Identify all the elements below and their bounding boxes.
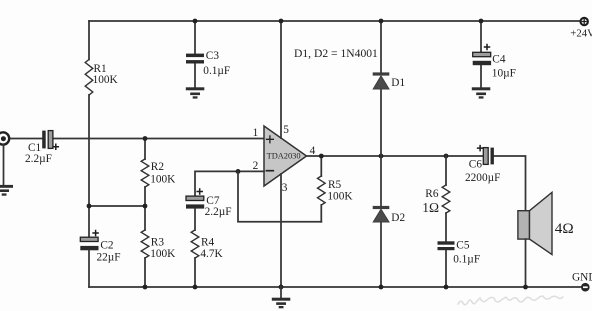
input terminal: [0, 132, 9, 144]
node (bottom rail / C5): [444, 285, 449, 290]
label R3: [151, 236, 165, 248]
value 0.1uF (C5): [453, 253, 480, 265]
node (top rail / D1): [379, 19, 384, 24]
value 100K (R5): [327, 190, 353, 202]
resistor R2: [141, 159, 149, 187]
value 2.2uF (C7): [205, 206, 232, 218]
value 0.1uF (C3): [203, 65, 230, 77]
wire input terminal to ground: [3, 145, 5, 185]
watermark squiggle: [458, 296, 563, 305]
label R6: [425, 188, 439, 200]
value 100K (R3): [150, 248, 176, 260]
label D2: [391, 212, 405, 224]
svg-text:D1: D1: [391, 77, 405, 89]
capacitor C5: [438, 241, 455, 250]
svg-text:2.2µF: 2.2µF: [205, 206, 232, 218]
svg-text:R1: R1: [94, 63, 107, 75]
label C1: [28, 142, 41, 154]
pin 2 label: [253, 160, 259, 172]
polarity + (C6): [478, 146, 483, 151]
capacitor C1: [42, 131, 53, 149]
label R2: [151, 161, 165, 173]
svg-text:10µF: 10µF: [492, 67, 516, 79]
node (top rail / C3): [193, 19, 198, 24]
label +24V: [570, 27, 592, 39]
capacitor C2: [80, 237, 98, 250]
capacitor C6: [483, 148, 494, 165]
svg-text:R3: R3: [151, 236, 165, 248]
wire pin 5 to top rail: [280, 21, 282, 138]
label R1: [94, 63, 107, 75]
svg-text:D1, D2 = 1N4001: D1, D2 = 1N4001: [294, 47, 378, 60]
svg-text:C6: C6: [469, 158, 483, 170]
resistor R5: [318, 176, 326, 205]
pin 5 label: [283, 124, 289, 136]
node (C2 column / link): [87, 204, 92, 209]
value 4.7K (R4): [200, 248, 223, 260]
wire feedback (pin2 node to R5 bottom): [238, 171, 321, 221]
wire left column (R1/C2 branch): [88, 21, 90, 237]
wire input line: [10, 138, 265, 140]
node (bottom rail / speaker): [523, 285, 528, 290]
op-amp U1 TDA2030: [264, 126, 307, 186]
wire R5 column: [320, 156, 322, 222]
svg-text:C4: C4: [492, 54, 506, 66]
label C2: [100, 239, 114, 251]
svg-text:R5: R5: [328, 179, 342, 191]
ground (C3): [186, 87, 205, 98]
capacitor C4: [473, 52, 491, 65]
pin 3 label: [282, 182, 288, 194]
svg-text:0.1µF: 0.1µF: [203, 65, 230, 77]
label D1: [391, 77, 405, 89]
node (bottom rail / D2): [379, 285, 384, 290]
label 4 ohm (speaker): [555, 220, 574, 237]
label R4: [201, 236, 215, 248]
wire R2/R3 column: [144, 139, 146, 288]
label C6: [469, 158, 483, 170]
wire bottom GND rail: [89, 286, 581, 288]
value 100K (R2): [150, 173, 176, 185]
resistor R1: [85, 60, 93, 96]
node (output / D column): [379, 154, 384, 159]
svg-text:4.7K: 4.7K: [200, 248, 223, 260]
node (input line / R2): [143, 136, 148, 141]
value 1 ohm (R6): [422, 200, 439, 215]
wire output line (pin 4): [307, 156, 526, 211]
svg-text:4Ω: 4Ω: [555, 220, 574, 237]
node (pin 2 / feedback): [236, 169, 241, 174]
node (output / R5): [319, 154, 324, 159]
svg-text:C2: C2: [100, 239, 114, 251]
node (top rail / pin 5): [279, 19, 284, 24]
svg-text:2: 2: [253, 160, 259, 172]
terminal GND: [581, 283, 590, 292]
value 100K (R1): [93, 74, 119, 86]
node (output / R6): [444, 154, 449, 159]
svg-text:100K: 100K: [93, 74, 119, 86]
wire D1/D2 column: [380, 21, 382, 287]
svg-text:5: 5: [283, 124, 289, 136]
label C5: [456, 240, 470, 252]
svg-text:2200µF: 2200µF: [465, 172, 500, 184]
label C3: [206, 50, 220, 62]
polarity + (C2): [93, 231, 98, 236]
svg-text:100K: 100K: [150, 173, 176, 185]
wire C2 to bottom rail: [88, 250, 90, 287]
wire speaker to bottom rail: [525, 239, 527, 287]
svg-text:R4: R4: [201, 236, 215, 248]
ground (bottom rail): [272, 287, 291, 308]
wire C7 to R4: [194, 209, 196, 287]
resistor R4: [191, 230, 199, 258]
ground (input): [0, 185, 13, 196]
svg-text:100K: 100K: [150, 248, 176, 260]
svg-text:1: 1: [253, 127, 259, 139]
value 22uF (C2): [97, 251, 121, 263]
svg-text:+24V: +24V: [570, 27, 592, 39]
node (bottom rail / R4): [193, 285, 198, 290]
ground (C4): [472, 87, 491, 98]
pin 1 label: [253, 127, 259, 139]
value 2.2uF (C1): [25, 153, 52, 165]
capacitor C3: [186, 54, 204, 64]
label TDA2030 (U1): [267, 152, 301, 161]
wire top +24V rail: [89, 20, 580, 22]
svg-text:3: 3: [282, 182, 288, 194]
label GND: [572, 272, 592, 284]
wire pin 2 input: [195, 171, 264, 196]
svg-text:22µF: 22µF: [97, 251, 121, 263]
polarity + (C1): [53, 144, 58, 149]
node (top rail / C4): [479, 19, 484, 24]
pin 4 label: [310, 145, 316, 157]
svg-text:C5: C5: [456, 240, 470, 252]
terminal +24V: [581, 18, 588, 25]
svg-text:R2: R2: [151, 161, 165, 173]
node (R2-R3 / link): [143, 204, 148, 209]
svg-text:2.2µF: 2.2µF: [25, 153, 52, 165]
capacitor C7: [186, 196, 204, 208]
svg-text:TDA2030: TDA2030: [267, 152, 301, 161]
value 10uF (C4): [492, 67, 516, 79]
polarity + (C4): [485, 45, 490, 50]
svg-text:1Ω: 1Ω: [422, 200, 439, 215]
svg-text:C3: C3: [206, 50, 220, 62]
wire C4 column: [480, 21, 482, 87]
wire C3 column: [194, 21, 196, 87]
polarity + (C7): [197, 189, 202, 194]
label R5: [328, 179, 342, 191]
wire R6/C5 column: [445, 156, 447, 287]
label D1, D2 = 1N4001: [294, 47, 378, 60]
svg-text:D2: D2: [391, 212, 405, 224]
wire C2-R3 link: [89, 205, 145, 207]
wire pin 3 to bottom rail: [280, 174, 282, 287]
svg-text:R6: R6: [425, 188, 439, 200]
diode D2: [373, 206, 390, 222]
svg-text:0.1µF: 0.1µF: [453, 253, 480, 265]
svg-text:100K: 100K: [327, 190, 353, 202]
node (bottom rail / pin 3): [279, 285, 284, 290]
speaker LS1: [518, 192, 552, 254]
resistor R6: [442, 185, 450, 213]
node (bottom rail / R3): [143, 285, 148, 290]
value 2200uF (C6): [465, 172, 500, 184]
label C4: [492, 54, 506, 66]
diode D1: [373, 72, 390, 89]
label C7: [206, 195, 220, 207]
svg-text:GND: GND: [572, 272, 592, 284]
resistor R3: [141, 230, 149, 258]
